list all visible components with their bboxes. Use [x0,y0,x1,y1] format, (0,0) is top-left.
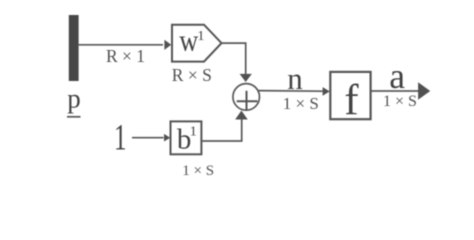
svg-text:1 × S: 1 × S [283,94,319,113]
output wire a [371,90,420,92]
summing junction circle [233,84,260,111]
svg-text:R × 1: R × 1 [106,46,145,66]
svg-text:a: a [389,56,405,96]
transfer function box f [330,72,370,119]
wire b1 to sum [201,119,241,141]
arrowhead into b1 [164,134,170,142]
underline of p [67,116,81,118]
svg-text:w: w [179,23,199,58]
wire sum to f [258,90,323,93]
wire 1 to b1 [132,137,164,139]
svg-text:1 × S: 1 × S [383,93,417,110]
wire p to W1 [79,44,163,46]
input vector bar [69,15,79,81]
svg-text:1 × S: 1 × S [182,163,214,179]
arrowhead into f [323,87,330,96]
arrowhead into W1 [164,40,171,50]
svg-text:f: f [344,77,359,124]
svg-text:p: p [67,84,81,114]
svg-text:1: 1 [197,29,204,44]
plus sign [237,100,258,102]
bias box b1 [171,121,202,154]
weight box W1 (pentagon) [172,25,222,62]
svg-text:1: 1 [190,124,197,139]
output arrowhead [418,82,430,99]
wire W1 to sum [222,43,246,74]
svg-text:n: n [287,61,303,96]
svg-text:1: 1 [114,118,127,159]
svg-text:R × S: R × S [172,65,212,85]
arrowhead into sum top [240,74,252,82]
arrowhead into sum bottom [235,111,248,120]
